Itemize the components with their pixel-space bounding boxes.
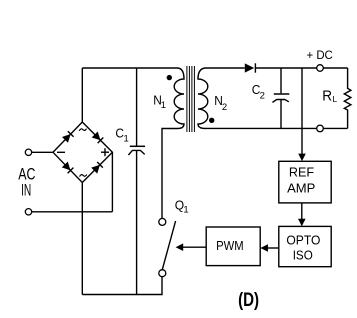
wire: C1 top lead: [136, 68, 138, 146]
bridge diode D2 (upper-left arm): [62, 131, 74, 143]
svg-text:2: 2: [222, 102, 227, 113]
wire: top rail (bridge + to transformer primary): [82, 67, 177, 69]
phasing dot (primary): [167, 75, 172, 80]
rectifier diode (series, secondary): [245, 63, 256, 72]
wire: feedback line from +DC rail down to REF AMP: [301, 68, 303, 154]
svg-text:1: 1: [124, 134, 129, 145]
bridge AC mark (top tilde): [79, 129, 86, 131]
switch Q1 bottom contact: [159, 270, 166, 277]
svg-text:AMP: AMP: [287, 181, 315, 196]
+DC output terminal: [317, 65, 324, 72]
wire: C2 bottom lead: [280, 99, 282, 128]
transformer primary winding N1: [174, 68, 184, 129]
bridge minus mark: [57, 151, 65, 153]
svg-text:PWM: PWM: [216, 238, 244, 253]
arrowhead: PWM to switch Q1: [176, 243, 184, 251]
bridge diode D4 (lower-right arm): [91, 162, 103, 174]
wire: secondary bottom rail to RL bottom corner: [206, 127, 348, 129]
svg-text:IN: IN: [21, 182, 31, 200]
bridge diode D1 (lower-left arm): [62, 162, 74, 174]
AC input terminal (bottom): [25, 209, 31, 215]
arrowhead: REF AMP into OPTO ISO: [298, 219, 306, 227]
bridge rectifier diamond: [53, 122, 112, 183]
DC return terminal: [317, 125, 324, 132]
arrowhead: OPTO ISO into PWM: [260, 244, 268, 252]
svg-text:1: 1: [161, 100, 166, 111]
wire: bridge bottom vertex down to bottom rail: [81, 183, 83, 295]
label OPTO ISO: [286, 232, 320, 262]
svg-text:AC: AC: [18, 165, 35, 183]
wire: bottom rail: [82, 277, 162, 295]
PWM box: [206, 227, 260, 266]
capacitor C2: [272, 94, 289, 102]
OPTO ISO box: [279, 226, 331, 266]
wire: diode cathode to RL top corner: [255, 67, 347, 69]
bridge plus mark: [101, 148, 109, 156]
wire: C1 bottom lead: [136, 151, 138, 295]
wire: AC bottom terminal run: [32, 211, 113, 213]
wire: OPTO ISO to PWM arrow line: [267, 247, 278, 249]
wire: AC top terminal to bridge left vertex: [32, 151, 53, 153]
svg-text:OPTO: OPTO: [286, 232, 320, 247]
wire: riser from bottom AC run to bridge right vertex: [111, 152, 113, 212]
svg-text:REF: REF: [289, 165, 314, 180]
wire: C2 top lead: [280, 68, 282, 93]
arrowhead: feedback into REF AMP: [298, 154, 306, 162]
label REF AMP: [287, 165, 315, 196]
capacitor C1: [128, 146, 145, 155]
svg-text:1: 1: [183, 205, 188, 216]
wire: REF AMP to OPTO ISO arrow line: [301, 203, 303, 220]
switch Q1 top contact: [159, 218, 166, 225]
wire: primary bottom lead to switch Q1: [162, 129, 178, 219]
load resistor RL: [344, 68, 351, 128]
transformer core: [187, 66, 195, 132]
transformer secondary winding N2: [198, 68, 208, 129]
svg-text:R: R: [322, 88, 332, 105]
bridge diode D3 (upper-right arm): [92, 132, 104, 144]
wire: left vertical, bridge top vertex to top rail: [81, 68, 83, 122]
switch Q1 blade: [162, 221, 175, 270]
svg-text:L: L: [332, 94, 337, 104]
svg-text:(D): (D): [238, 289, 259, 311]
svg-text:2: 2: [260, 90, 265, 101]
svg-text:ISO: ISO: [293, 248, 313, 263]
bridge AC mark (bottom tilde): [80, 175, 87, 177]
wire: secondary top lead to rectifier diode anode: [206, 67, 245, 69]
svg-text:+ DC: + DC: [307, 48, 334, 62]
phasing dot (secondary): [209, 118, 214, 123]
wire: PWM output to switch arrow line: [183, 246, 207, 248]
AC input terminal (top): [25, 149, 31, 155]
label AC IN: [18, 165, 35, 199]
REF AMP box: [279, 161, 331, 203]
